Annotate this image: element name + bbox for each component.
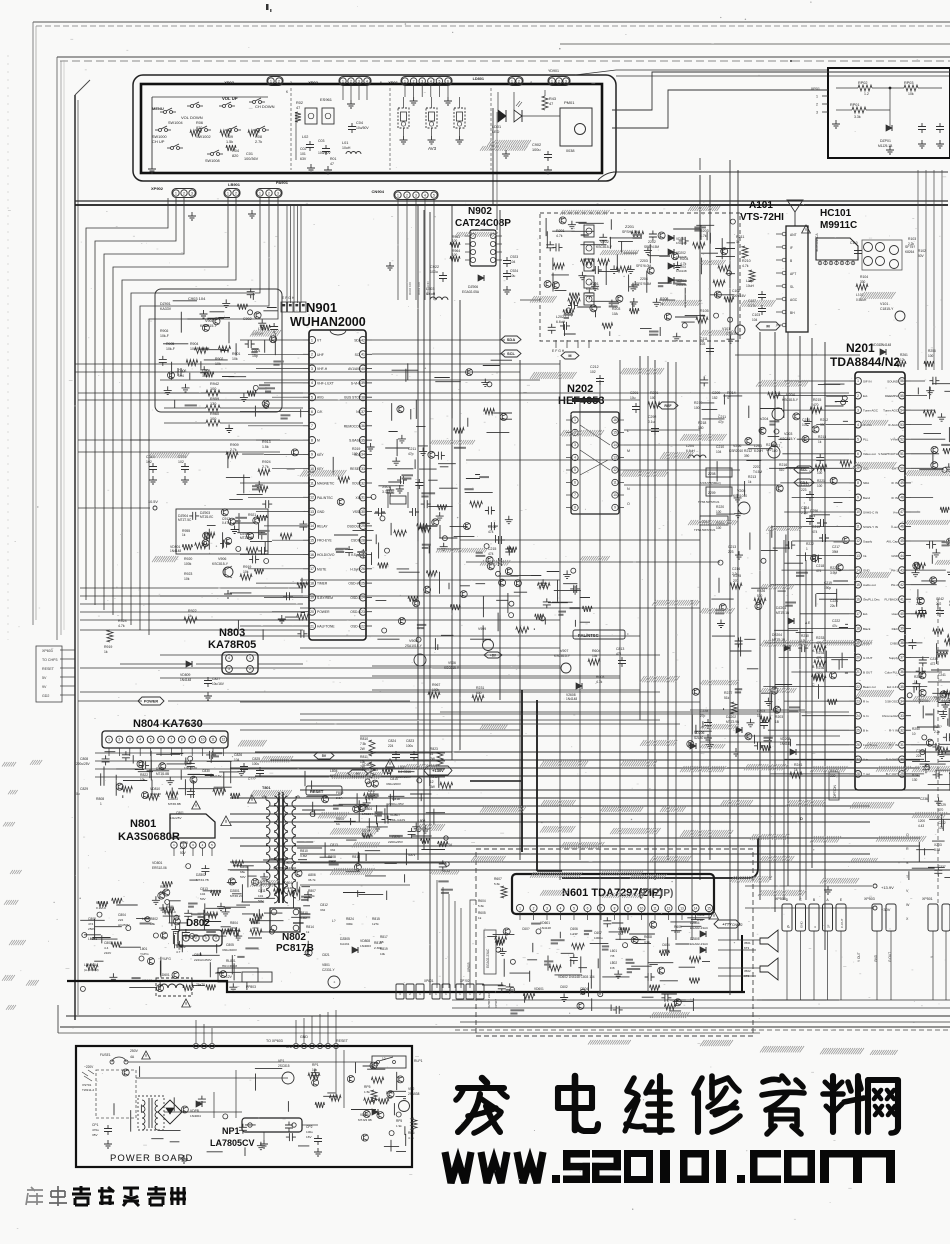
- svg-text:AFT: AFT: [790, 272, 796, 276]
- svg-text:C222: C222: [832, 619, 840, 623]
- svg-text:1: 1: [404, 80, 406, 84]
- svg-text:50V: 50V: [180, 851, 187, 855]
- svg-text:250V: 250V: [130, 1049, 139, 1053]
- svg-text:C228: C228: [700, 709, 708, 713]
- svg-text:L202: L202: [556, 315, 564, 319]
- svg-text:10u/50V: 10u/50V: [356, 126, 369, 130]
- svg-text:Video out: Video out: [863, 452, 876, 456]
- svg-text:6: 6: [587, 906, 589, 910]
- svg-text:R604: R604: [592, 649, 600, 653]
- svg-text:/1: /1: [530, 81, 533, 85]
- svg-text:Tuner AGC: Tuner AGC: [863, 409, 879, 413]
- svg-text:32: 32: [900, 728, 904, 732]
- svg-text:7: 7: [574, 493, 576, 497]
- svg-text:8: 8: [181, 738, 183, 742]
- svg-text:LDM801: LDM801: [84, 963, 96, 967]
- svg-text:7.5k: 7.5k: [360, 742, 366, 746]
- svg-text:C215: C215: [488, 547, 496, 551]
- svg-text:C1815-Y: C1815-Y: [880, 307, 894, 311]
- svg-text:TO XP603: TO XP603: [266, 1039, 283, 1043]
- svg-text:470: 470: [766, 448, 772, 452]
- svg-text:V906: V906: [218, 557, 226, 561]
- svg-text:2: 2: [278, 80, 280, 84]
- svg-text:47: 47: [900, 510, 904, 514]
- svg-text:39: 39: [900, 627, 904, 631]
- svg-text:R601: R601: [674, 925, 682, 929]
- svg-text:VD804: VD804: [362, 807, 372, 811]
- svg-text:CP1: CP1: [92, 1123, 99, 1127]
- svg-text:R817: R817: [380, 935, 388, 939]
- svg-text:2207: 2207: [753, 465, 761, 469]
- svg-text:10: 10: [856, 510, 860, 514]
- svg-text:C811: C811: [258, 889, 266, 893]
- svg-text:C03: C03: [318, 139, 324, 143]
- svg-text:F802: F802: [336, 791, 344, 795]
- svg-text:33: 33: [900, 714, 904, 718]
- svg-text:36: 36: [361, 424, 365, 428]
- svg-text:DZ901: DZ901: [160, 302, 171, 306]
- svg-text:BH: BH: [790, 311, 795, 315]
- svg-text:SW1004: SW1004: [168, 121, 183, 125]
- svg-text:10u/50V: 10u/50V: [318, 151, 331, 155]
- svg-text:6: 6: [447, 80, 449, 84]
- svg-text:C213: C213: [728, 545, 736, 549]
- svg-text:R815: R815: [372, 917, 380, 921]
- svg-text:XP02: XP02: [308, 80, 319, 85]
- svg-text:R805: R805: [252, 921, 260, 925]
- svg-text:1N4148: 1N4148: [150, 792, 161, 796]
- svg-text:C217: C217: [832, 545, 840, 549]
- svg-text:R810: R810: [300, 849, 308, 853]
- svg-text:VD808: VD808: [360, 939, 370, 943]
- svg-text:104: 104: [716, 450, 722, 454]
- svg-text:N: N: [627, 487, 630, 491]
- svg-text:4: 4: [228, 656, 230, 660]
- svg-text:V.SAWTOOTH: V.SAWTOOTH: [878, 452, 898, 456]
- svg-text:VD601: VD601: [540, 921, 550, 925]
- svg-text:R607: R607: [494, 877, 502, 881]
- svg-text:4.7k: 4.7k: [556, 234, 563, 238]
- svg-text:R819: R819: [380, 947, 388, 951]
- svg-text:KSC815-Y: KSC815-Y: [200, 324, 218, 328]
- svg-text:R216: R216: [779, 463, 787, 467]
- svg-text:C214: C214: [732, 567, 740, 571]
- svg-text:2: 2: [235, 192, 237, 196]
- svg-text:C2331-Y: C2331-Y: [322, 968, 335, 972]
- svg-text:C826: C826: [234, 753, 242, 757]
- svg-text:DZ803: DZ803: [168, 797, 178, 801]
- svg-text:10A: 10A: [612, 312, 619, 316]
- svg-text:Z201: Z201: [625, 224, 635, 229]
- svg-text:DZ802: DZ802: [196, 873, 206, 877]
- svg-text:R43: R43: [549, 97, 556, 101]
- svg-text:RP5: RP5: [364, 1085, 371, 1089]
- svg-text:C-OUT: C-OUT: [840, 918, 844, 928]
- svg-text:9: 9: [857, 496, 859, 500]
- svg-text:GND: GND: [891, 554, 899, 558]
- svg-text:SCL: SCL: [355, 353, 362, 357]
- svg-text:C04: C04: [356, 121, 363, 125]
- svg-text:N802: N802: [282, 932, 306, 943]
- svg-text:R823: R823: [430, 747, 438, 751]
- svg-text:FRO-EYE: FRO-EYE: [317, 539, 332, 543]
- svg-text:12: 12: [310, 496, 314, 500]
- svg-text:2: 2: [350, 80, 352, 84]
- svg-text:44: 44: [900, 554, 904, 558]
- svg-text:330: 330: [860, 280, 866, 284]
- svg-text:R213: R213: [748, 475, 756, 479]
- svg-text:XP503: XP503: [864, 897, 875, 901]
- svg-text:Ext 4.43: Ext 4.43: [887, 685, 898, 689]
- svg-text:47: 47: [296, 106, 300, 110]
- svg-text:1.5k: 1.5k: [226, 140, 233, 144]
- svg-text:102: 102: [590, 370, 596, 374]
- svg-text:VD810: VD810: [150, 787, 160, 791]
- svg-text:W: W: [906, 903, 910, 907]
- svg-text:470: 470: [938, 808, 944, 812]
- svg-text:1N4148: 1N4148: [170, 549, 181, 553]
- svg-text:R909: R909: [230, 443, 239, 447]
- svg-text:~220V: ~220V: [84, 1065, 94, 1069]
- svg-text:8: 8: [311, 438, 313, 442]
- svg-text:V901: V901: [205, 319, 214, 323]
- svg-text:21: 21: [856, 670, 860, 674]
- svg-text:PA901: PA901: [276, 180, 289, 185]
- svg-text:R604: R604: [478, 899, 486, 903]
- svg-text:9: 9: [191, 738, 193, 742]
- svg-text:223: 223: [728, 550, 734, 554]
- svg-text:CR04: CR04: [580, 987, 588, 991]
- svg-text:R231: R231: [476, 686, 484, 690]
- svg-text:3.58: 3.58: [934, 848, 940, 852]
- svg-text:4.43: 4.43: [918, 824, 924, 828]
- svg-text:D802: D802: [186, 918, 210, 929]
- svg-text:M1Z/5.1B: M1Z/5.1B: [878, 144, 893, 148]
- svg-text:R203: R203: [775, 715, 783, 719]
- svg-text:HC101: HC101: [820, 208, 852, 219]
- svg-text:ES961: ES961: [320, 97, 333, 102]
- svg-text:C213: C213: [801, 483, 809, 487]
- svg-text:R810: R810: [360, 737, 368, 741]
- svg-text:1: 1: [249, 656, 251, 660]
- svg-text:PAL/NTSC: PAL/NTSC: [578, 633, 599, 638]
- svg-text:30: 30: [900, 758, 904, 762]
- svg-text:100u: 100u: [406, 744, 413, 748]
- svg-text:LF801: LF801: [88, 937, 97, 941]
- svg-text:AVL Cap: AVL Cap: [886, 539, 898, 543]
- svg-text:PAL/NTSC: PAL/NTSC: [317, 496, 333, 500]
- svg-text:14: 14: [694, 906, 698, 910]
- svg-text:Chroma Ref: Chroma Ref: [882, 714, 898, 718]
- svg-text:14: 14: [310, 524, 314, 528]
- svg-text:G In: G In: [863, 714, 869, 718]
- svg-text:0.1M-C: 0.1M-C: [96, 906, 107, 910]
- svg-text:4.7: 4.7: [176, 950, 181, 954]
- svg-text:MTZ4.7B: MTZ4.7B: [196, 878, 209, 882]
- svg-text:40: 40: [900, 612, 904, 616]
- svg-text:8: 8: [614, 906, 616, 910]
- svg-text:1: 1: [270, 80, 272, 84]
- svg-text:223: 223: [801, 488, 807, 492]
- svg-text:10k: 10k: [232, 357, 238, 361]
- svg-text:68k: 68k: [160, 890, 165, 894]
- svg-text:LA7805CV: LA7805CV: [210, 1138, 255, 1148]
- svg-text:L01: L01: [342, 141, 348, 145]
- svg-text:16: 16: [856, 598, 860, 602]
- svg-text:IF: IF: [790, 246, 793, 250]
- svg-text:AV1/AV2: AV1/AV2: [348, 367, 361, 371]
- svg-text:26: 26: [361, 567, 365, 571]
- svg-text:S-VHS: S-VHS: [351, 381, 362, 385]
- svg-text:R804: R804: [230, 921, 238, 925]
- svg-text:4: 4: [424, 194, 426, 198]
- svg-text:18: 18: [310, 581, 314, 585]
- svg-text:R601: R601: [697, 913, 705, 917]
- svg-text:TPS5.5M/STF21: TPS5.5M/STF21: [698, 500, 720, 504]
- svg-text:R1K1: R1K1: [96, 901, 104, 905]
- svg-text:OSD-R: OSD-R: [350, 596, 361, 600]
- svg-text:MTZ9.1B: MTZ9.1B: [776, 611, 789, 615]
- svg-text:PLL: PLL: [863, 438, 869, 442]
- svg-text:R04: R04: [232, 149, 239, 153]
- svg-text:3: 3: [290, 81, 292, 85]
- svg-text:C???: C???: [248, 777, 256, 781]
- svg-text:R808: R808: [328, 855, 336, 859]
- svg-text:4: 4: [430, 80, 432, 84]
- svg-text:N803: N803: [219, 627, 245, 639]
- svg-text:3: 3: [546, 906, 548, 910]
- svg-text:50V: 50V: [918, 254, 925, 258]
- svg-text:C903 104: C903 104: [188, 296, 206, 301]
- svg-text:1k: 1k: [478, 916, 482, 920]
- svg-text:SCL: SCL: [507, 351, 516, 356]
- svg-text:35: 35: [900, 685, 904, 689]
- svg-text:CH DOWN: CH DOWN: [255, 104, 275, 109]
- svg-text:100: 100: [694, 406, 700, 410]
- svg-text:16: 16: [310, 553, 314, 557]
- svg-text:R286: R286: [914, 675, 922, 679]
- svg-text:14: 14: [856, 568, 860, 572]
- svg-text:AC250V: AC250V: [118, 923, 130, 927]
- svg-text:153: 153: [560, 990, 565, 994]
- svg-text:CN602: CN602: [732, 923, 743, 927]
- svg-text:2: 2: [119, 738, 121, 742]
- svg-text:76eT6: 76eT6: [196, 983, 205, 987]
- svg-text:1k: 1k: [104, 650, 108, 654]
- svg-text:GD2: GD2: [42, 694, 49, 698]
- svg-text:13: 13: [680, 906, 684, 910]
- svg-text:R104: R104: [860, 275, 868, 279]
- svg-text:15: 15: [856, 583, 860, 587]
- svg-text:222: 222: [916, 602, 922, 606]
- svg-text:L?: L?: [332, 919, 336, 923]
- svg-text:C242: C242: [936, 597, 944, 601]
- svg-text:TO CHP3: TO CHP3: [42, 658, 58, 662]
- svg-text:1N4148: 1N4148: [676, 269, 687, 273]
- svg-text:100: 100: [817, 484, 823, 488]
- svg-text:9: 9: [311, 453, 313, 457]
- svg-text:SecPLL Dec: SecPLL Dec: [863, 598, 880, 602]
- svg-text:68u: 68u: [240, 870, 245, 874]
- svg-text:5: 5: [150, 738, 152, 742]
- svg-text:N801: N801: [130, 818, 156, 830]
- svg-text:VP1: VP1: [278, 1059, 285, 1063]
- svg-text:C922: C922: [430, 265, 439, 269]
- svg-text:5: 5: [433, 194, 435, 198]
- svg-text:50V: 50V: [258, 899, 264, 903]
- svg-text:R902: R902: [215, 357, 223, 361]
- svg-text:SOUND: SOUND: [887, 379, 899, 383]
- svg-text:V204: V204: [786, 393, 795, 397]
- svg-text:R219: R219: [694, 401, 702, 405]
- svg-text:104: 104: [752, 318, 758, 322]
- svg-text:R803: R803: [160, 885, 168, 889]
- svg-text:LB901: LB901: [228, 182, 241, 187]
- svg-text:330u/400V: 330u/400V: [222, 948, 238, 952]
- svg-text:V101: V101: [880, 302, 888, 306]
- svg-text:R810: R810: [300, 911, 308, 915]
- svg-text:41: 41: [361, 353, 365, 357]
- svg-text:17: 17: [310, 567, 314, 571]
- svg-text:2.2k: 2.2k: [908, 242, 914, 246]
- svg-text:VT: VT: [317, 339, 321, 343]
- svg-text:474: 474: [488, 530, 494, 534]
- svg-text:1: 1: [519, 906, 521, 910]
- svg-text:SDA: SDA: [354, 339, 362, 343]
- svg-text:HOLD/OVO: HOLD/OVO: [317, 553, 335, 557]
- svg-text:C901: C901: [252, 349, 260, 353]
- svg-text:27: 27: [856, 758, 860, 762]
- svg-text:2: 2: [413, 80, 415, 84]
- svg-text:R946 100: R946 100: [408, 282, 412, 295]
- svg-text:1N4148: 1N4148: [676, 283, 687, 287]
- svg-text:6.2uH: 6.2uH: [754, 449, 763, 453]
- svg-text:XP605: XP605: [467, 962, 471, 972]
- svg-text:101: 101: [258, 894, 263, 898]
- svg-text:2SA538: 2SA538: [408, 1092, 420, 1096]
- svg-text:68: 68: [380, 940, 384, 944]
- svg-text:NC: NC: [356, 410, 361, 414]
- svg-text:R218: R218: [698, 421, 706, 425]
- svg-text:2: 2: [857, 394, 859, 398]
- svg-text:C808: C808: [80, 757, 88, 761]
- svg-text:10k-F: 10k-F: [160, 334, 169, 338]
- svg-text:TDA8844/N2: TDA8844/N2: [830, 355, 900, 369]
- svg-text:1 9k: 1 9k: [396, 1124, 402, 1128]
- svg-text:DZ80? 22AC: DZ80? 22AC: [487, 990, 491, 1008]
- svg-text:56: 56: [900, 379, 904, 383]
- svg-text:63V: 63V: [300, 157, 307, 161]
- svg-text:3: 3: [415, 194, 417, 198]
- svg-text:103: 103: [700, 342, 706, 346]
- svg-text:MTZ6.2C: MTZ6.2C: [230, 894, 244, 898]
- svg-text:MENU: MENU: [152, 106, 164, 111]
- svg-text:27p: 27p: [700, 714, 706, 718]
- svg-text:1: 1: [311, 338, 313, 342]
- svg-text:D2801: D2801: [230, 889, 240, 893]
- svg-text:SFS?5.5M: SFS?5.5M: [636, 282, 651, 286]
- svg-text:12: 12: [667, 906, 671, 910]
- svg-text:R256: R256: [928, 349, 936, 353]
- svg-text:CH UP: CH UP: [152, 139, 165, 144]
- svg-text:7: 7: [171, 738, 173, 742]
- svg-text:R211: R211: [736, 235, 744, 239]
- svg-text:47u: 47u: [832, 624, 838, 628]
- svg-text:12: 12: [430, 780, 434, 784]
- svg-text:2.2u: 2.2u: [732, 572, 738, 576]
- svg-text:Ext.: Ext.: [863, 612, 868, 616]
- svg-text:30: 30: [361, 510, 365, 514]
- svg-text:RP01: RP01: [850, 103, 860, 107]
- svg-text:5V: 5V: [322, 754, 327, 758]
- svg-text:1N4148: 1N4148: [566, 697, 577, 701]
- svg-text:6T3: 6T3: [744, 946, 750, 950]
- svg-text:A: A: [813, 926, 817, 928]
- svg-text:R967: R967: [432, 683, 440, 687]
- svg-text:14: 14: [613, 443, 617, 447]
- svg-text:36.7k: 36.7k: [308, 878, 316, 882]
- svg-text:R807: R807: [308, 889, 316, 893]
- svg-text:10k-F: 10k-F: [166, 347, 175, 351]
- svg-text:474: 474: [488, 552, 494, 556]
- svg-text:VD601: VD601: [534, 987, 544, 991]
- svg-text:L901: L901: [258, 327, 266, 331]
- svg-text:Black: Black: [863, 627, 871, 631]
- svg-text:4.7k: 4.7k: [700, 234, 707, 238]
- svg-text:MTZ7.5C: MTZ7.5C: [178, 518, 192, 522]
- svg-text:KA33V: KA33V: [160, 307, 172, 311]
- svg-text:C60?: C60?: [522, 927, 530, 931]
- svg-text:222: 222: [118, 918, 123, 922]
- svg-text:XS?01: XS?01: [82, 1083, 92, 1087]
- svg-text:C241: C241: [938, 673, 946, 677]
- svg-text:(A-C100M): (A-C100M): [84, 968, 99, 972]
- svg-text:100u: 100u: [430, 270, 438, 274]
- svg-text:SCL: SCL: [800, 468, 808, 472]
- svg-text:R09: R09: [226, 135, 233, 139]
- svg-text:54: 54: [900, 408, 904, 412]
- svg-text:RP5: RP5: [396, 1119, 402, 1123]
- svg-text:472: 472: [930, 662, 936, 666]
- svg-text:2200u/25V: 2200u/25V: [388, 840, 404, 844]
- svg-text:C608: C608: [618, 927, 626, 931]
- svg-text:C830: C830: [202, 769, 210, 773]
- svg-text:DZ201: DZ201: [776, 606, 786, 610]
- svg-text:D2204: D2204: [772, 633, 782, 637]
- svg-text:L602: L602: [610, 961, 617, 965]
- svg-text:474: 474: [88, 922, 93, 926]
- svg-text:MTZ3.9B: MTZ3.9B: [726, 720, 739, 724]
- svg-text:2.7k: 2.7k: [230, 448, 237, 452]
- svg-text:R01: R01: [330, 157, 336, 161]
- svg-text:OSDOUT: OSDOUT: [347, 524, 361, 528]
- svg-text:48: 48: [900, 496, 904, 500]
- svg-text:16: 16: [613, 418, 617, 422]
- svg-text:EGA02-23AC: EGA02-23AC: [486, 948, 490, 968]
- svg-text:DZ805: DZ805: [340, 937, 350, 941]
- svg-text:102: 102: [580, 992, 585, 996]
- svg-text:H.Sync: H.Sync: [350, 567, 361, 571]
- svg-text:4A: 4A: [130, 1055, 135, 1059]
- svg-text:VD805: VD805: [362, 763, 372, 767]
- svg-text:SIF IN: SIF IN: [863, 379, 872, 383]
- svg-text:HR-CR003: HR-CR003: [222, 964, 237, 968]
- svg-text:6.6uH: 6.6uH: [556, 320, 566, 324]
- svg-text:100u: 100u: [252, 762, 259, 766]
- svg-text:5: 5: [574, 468, 576, 472]
- svg-text:XP601: XP601: [424, 979, 434, 983]
- svg-text:6: 6: [574, 481, 576, 485]
